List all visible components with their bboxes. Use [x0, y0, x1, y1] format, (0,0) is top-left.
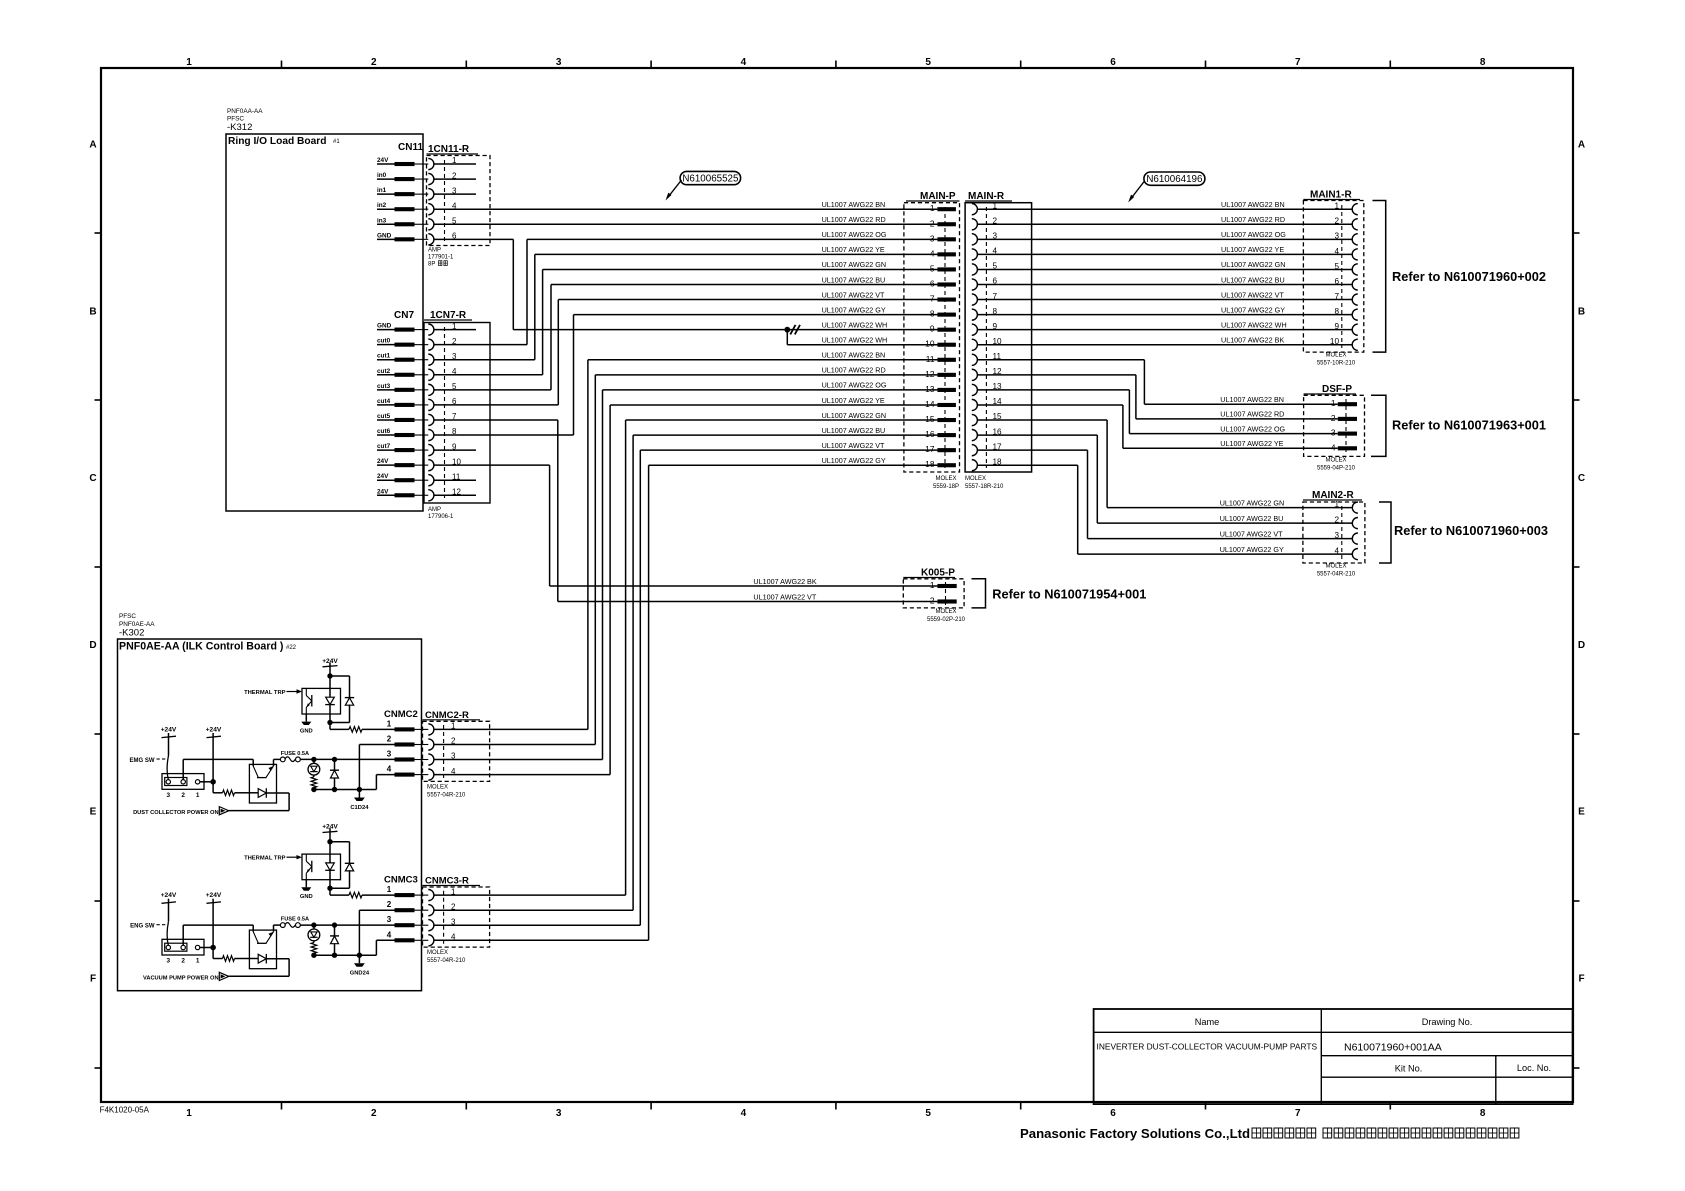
wire CN7 pin3 to MAIN-P pin4	[434, 359, 535, 361]
svg-text:7: 7	[1295, 1108, 1301, 1119]
svg-text:UL1007 AWG22 BN: UL1007 AWG22 BN	[822, 351, 886, 360]
svg-text:8: 8	[1334, 307, 1339, 316]
svg-text:UL1007 AWG22 VT: UL1007 AWG22 VT	[753, 592, 816, 601]
3-pin terminal block	[162, 774, 204, 790]
ground GND	[305, 880, 307, 888]
svg-text:UL1007 AWG22 BU: UL1007 AWG22 BU	[822, 275, 886, 284]
wire MAIN-R pin9 to MAIN1-R pin9	[977, 329, 1352, 331]
wire MAIN-R pin7 to MAIN1-R pin7	[977, 299, 1352, 301]
svg-text:Kit No.: Kit No.	[1395, 1064, 1423, 1074]
svg-text:24V: 24V	[377, 488, 389, 495]
svg-text:UL1007 AWG22 VT: UL1007 AWG22 VT	[822, 441, 885, 450]
diode in opto and output loop	[258, 789, 266, 798]
svg-text:PFSC: PFSC	[119, 613, 136, 620]
svg-text:UL1007 AWG22 BK: UL1007 AWG22 BK	[1221, 336, 1284, 345]
svg-text:MOLEX: MOLEX	[1325, 353, 1346, 359]
svg-text:3: 3	[451, 752, 456, 761]
svg-text:1: 1	[930, 580, 935, 590]
wire MAIN-P pin16 to CNMC3-R pin2	[633, 434, 937, 436]
svg-text:5559-04P-210: 5559-04P-210	[1317, 466, 1356, 472]
wire MAIN-R pin14 to DSF-P pin4	[977, 404, 1123, 406]
bracket K005-P	[972, 579, 986, 608]
svg-text:UL1007 AWG22 GY: UL1007 AWG22 GY	[822, 305, 886, 314]
bracket MAIN2-R	[1379, 502, 1391, 563]
svg-text:UL1007 AWG22 VT: UL1007 AWG22 VT	[1220, 529, 1283, 538]
svg-text:1: 1	[1334, 202, 1339, 211]
node bottom	[327, 886, 332, 891]
svg-text:DUST COLLECTOR POWER ON: DUST COLLECTOR POWER ON	[133, 810, 219, 816]
wire CN11 pin6 GND down to WH node	[434, 238, 513, 240]
opto-coupler thermal trip	[302, 688, 341, 714]
svg-text:PNF0AE-AA (ILK Control Board ): PNF0AE-AA (ILK Control Board )	[119, 641, 283, 653]
svg-text:GND: GND	[377, 323, 392, 330]
svg-text:GND: GND	[300, 894, 313, 900]
wire CN7 pin6 to MAIN-P pin7	[434, 404, 558, 406]
svg-text:4: 4	[451, 933, 456, 942]
svg-text:UL1007 AWG22 RD: UL1007 AWG22 RD	[822, 366, 886, 375]
svg-text:cut2: cut2	[377, 368, 391, 375]
svg-text:UL1007 AWG22 RD: UL1007 AWG22 RD	[822, 215, 886, 224]
svg-text:6: 6	[1110, 57, 1116, 68]
svg-text:UL1007 AWG22 RD: UL1007 AWG22 RD	[1220, 410, 1284, 419]
wire pin2 to opto collector	[182, 925, 184, 945]
svg-text:3: 3	[167, 792, 171, 799]
svg-text:UL1007 AWG22 BN: UL1007 AWG22 BN	[1221, 200, 1285, 209]
svg-text:F4K1020-05A: F4K1020-05A	[100, 1106, 150, 1115]
svg-text:UL1007 AWG22 YE: UL1007 AWG22 YE	[822, 245, 885, 254]
svg-text:10: 10	[925, 339, 935, 349]
resistor to opto	[212, 948, 214, 959]
wire CN11 pin5 to MAIN-P pin2	[434, 223, 938, 225]
svg-text:B: B	[89, 306, 96, 317]
svg-text:GND24: GND24	[350, 971, 370, 977]
wire MAIN-R pin2 to MAIN1-R pin2	[977, 223, 1352, 225]
node bottom	[327, 720, 332, 725]
svg-text:11: 11	[926, 354, 935, 364]
wire MAIN-P pin12 to CNMC2-R pin2	[595, 374, 937, 376]
svg-text:in3: in3	[377, 217, 387, 224]
svg-text:8P: 8P	[428, 262, 435, 268]
svg-text:C: C	[1578, 473, 1585, 484]
svg-text:9: 9	[930, 324, 935, 334]
svg-text:2: 2	[1331, 413, 1336, 423]
svg-text:A: A	[89, 140, 96, 151]
svg-text:MAIN2-R: MAIN2-R	[1312, 490, 1354, 501]
svg-text:8: 8	[930, 309, 935, 319]
svg-text:5557-04R-210: 5557-04R-210	[427, 793, 466, 799]
svg-text:D: D	[1578, 640, 1585, 651]
svg-text:1: 1	[196, 958, 200, 965]
svg-text:7: 7	[1334, 292, 1339, 301]
svg-text:cut6: cut6	[377, 428, 391, 435]
svg-text:Ring I/O Load Board: Ring I/O Load Board	[228, 136, 326, 147]
svg-text:12: 12	[925, 369, 935, 379]
svg-text:EMG SW: EMG SW	[130, 758, 155, 764]
svg-text:UL1007 AWG22 GY: UL1007 AWG22 GY	[1220, 545, 1284, 554]
svg-text:1: 1	[387, 719, 392, 728]
svg-text:MAIN-P: MAIN-P	[920, 191, 956, 202]
svg-text:177906-1: 177906-1	[428, 514, 454, 520]
svg-text:#1: #1	[333, 139, 340, 145]
svg-text:3: 3	[387, 915, 392, 924]
svg-text:N610064196: N610064196	[1146, 174, 1203, 185]
bottom rail to pin4	[314, 789, 377, 791]
svg-text:5559-18P: 5559-18P	[933, 484, 959, 490]
svg-text:UL1007 AWG22 WH: UL1007 AWG22 WH	[1221, 320, 1287, 329]
fuse 0.5A	[274, 924, 281, 926]
svg-text:UL1007 AWG22 OG: UL1007 AWG22 OG	[1221, 230, 1286, 239]
wire MAIN-P pin13 to CNMC2-R pin3	[603, 389, 938, 391]
svg-text:Loc. No.: Loc. No.	[1517, 1063, 1551, 1073]
svg-text:2: 2	[371, 57, 377, 68]
svg-text:CN7: CN7	[394, 310, 414, 321]
svg-text:2: 2	[371, 1108, 377, 1119]
wire CN7 pin10 to K005-P pin1	[434, 464, 550, 466]
svg-text:D: D	[89, 640, 96, 651]
svg-text:UL1007 AWG22 OG: UL1007 AWG22 OG	[1220, 424, 1285, 433]
svg-text:cut3: cut3	[377, 383, 391, 390]
svg-text:CNMC3: CNMC3	[384, 875, 418, 886]
svg-text:2: 2	[387, 900, 392, 909]
svg-text:N610065525: N610065525	[682, 174, 739, 185]
resistor to pin1	[329, 888, 331, 895]
svg-text:7: 7	[1295, 57, 1301, 68]
svg-text:Drawing No.: Drawing No.	[1422, 1017, 1473, 1027]
svg-text:+24V: +24V	[161, 892, 177, 899]
svg-text:1: 1	[186, 1108, 192, 1119]
svg-text:1: 1	[186, 57, 192, 68]
wire MAIN-R pin13 to DSF-P pin3	[977, 389, 1129, 391]
svg-text:6: 6	[1334, 277, 1339, 286]
svg-text:E: E	[1578, 807, 1585, 818]
svg-text:5557-18R-210: 5557-18R-210	[965, 484, 1004, 490]
svg-text:FUSE 0.5A: FUSE 0.5A	[281, 751, 309, 757]
svg-text:4: 4	[930, 248, 935, 258]
wire CN11 pin4 to MAIN-P pin1	[434, 208, 938, 210]
svg-text:Refer to N610071954+001: Refer to N610071954+001	[992, 587, 1146, 602]
wire MAIN-P pin11 to CNMC2-R pin1	[588, 359, 938, 361]
svg-text:2: 2	[1334, 217, 1339, 226]
wire jumper to MAIN-P pin10	[786, 330, 788, 345]
svg-text:+24V: +24V	[161, 727, 177, 734]
svg-text:10: 10	[1330, 337, 1340, 346]
svg-text:UL1007 AWG22 BU: UL1007 AWG22 BU	[1220, 514, 1284, 523]
svg-text:1: 1	[930, 203, 935, 213]
svg-text:1CN11-R: 1CN11-R	[428, 144, 470, 155]
buffer triangle VACUUM PUMP POWER ON	[219, 972, 229, 980]
svg-text:3: 3	[167, 958, 171, 965]
svg-text:MOLEX: MOLEX	[1325, 458, 1346, 464]
svg-text:FUSE 0.5A: FUSE 0.5A	[281, 917, 309, 923]
wire MAIN-R pin5 to MAIN1-R pin5	[977, 268, 1352, 270]
svg-text:2: 2	[451, 902, 456, 911]
svg-text:2: 2	[451, 737, 456, 746]
svg-text:MAIN-R: MAIN-R	[968, 191, 1005, 202]
wire MAIN-R pin1 to MAIN1-R pin1	[977, 208, 1352, 210]
wire CN7 pin7 to K005-P pin2	[434, 419, 558, 421]
resistor below LED	[313, 941, 315, 943]
stamp N610065525	[680, 171, 741, 184]
wire MAIN-R pin12 to DSF-P pin2	[977, 374, 1136, 376]
wire MAIN-R pin4 to MAIN1-R pin4	[977, 253, 1352, 255]
svg-text:16: 16	[925, 429, 935, 439]
svg-text:5559-02P-210: 5559-02P-210	[927, 617, 966, 623]
LED indicator	[313, 759, 315, 763]
wire fuse to pin3	[300, 758, 395, 760]
svg-text:UL1007 AWG22 VT: UL1007 AWG22 VT	[1221, 290, 1284, 299]
resistor to opto	[212, 782, 214, 793]
svg-text:UL1007 AWG22 VT: UL1007 AWG22 VT	[822, 290, 885, 299]
wire MAIN-R pin18 to MAIN2-R pin4	[977, 464, 1077, 466]
svg-text:UL1007 AWG22 RD: UL1007 AWG22 RD	[1221, 215, 1285, 224]
3-pin terminal block	[162, 939, 204, 955]
svg-text:cut5: cut5	[377, 413, 391, 420]
svg-text:-K312: -K312	[227, 122, 252, 133]
svg-text:UL1007 AWG22 BN: UL1007 AWG22 BN	[822, 200, 886, 209]
svg-text:MOLEX: MOLEX	[935, 609, 956, 615]
svg-text:C: C	[89, 473, 96, 484]
fuse 0.5A	[274, 758, 281, 760]
svg-text:24V: 24V	[377, 458, 389, 465]
svg-text:THERMAL TRP: THERMAL TRP	[244, 856, 286, 862]
break mark //	[790, 325, 795, 335]
svg-text:GND: GND	[300, 729, 313, 735]
wire CN7 pin2 to MAIN-P pin3	[434, 344, 527, 346]
svg-text:N610071960+001AA: N610071960+001AA	[1344, 1042, 1442, 1054]
svg-text:Name: Name	[1195, 1017, 1220, 1027]
svg-text:MOLEX: MOLEX	[427, 785, 448, 791]
svg-text:MOLEX: MOLEX	[965, 476, 986, 482]
diode (zener) branch	[334, 759, 336, 770]
svg-text:177901-1: 177901-1	[428, 255, 454, 261]
svg-text:UL1007 AWG22 OG: UL1007 AWG22 OG	[822, 230, 887, 239]
svg-text:4: 4	[387, 765, 392, 774]
svg-text:5557-10R-210: 5557-10R-210	[1317, 361, 1356, 367]
svg-text:+24V: +24V	[206, 727, 222, 734]
svg-text:UL1007 AWG22 GY: UL1007 AWG22 GY	[1221, 305, 1285, 314]
svg-text:+24V: +24V	[206, 892, 222, 899]
node at pin1	[200, 781, 213, 783]
resistor below LED	[313, 775, 315, 777]
border frame	[101, 68, 1573, 1102]
svg-text:VACUUM PUMP POWER ON: VACUUM PUMP POWER ON	[143, 976, 219, 982]
wire MAIN-R pin10 to MAIN1-R pin10	[977, 344, 1352, 346]
svg-text:in2: in2	[377, 202, 387, 209]
svg-text:UL1007 AWG22 YE: UL1007 AWG22 YE	[1221, 245, 1284, 254]
svg-text:3: 3	[1334, 232, 1339, 241]
svg-text:1: 1	[451, 887, 456, 896]
svg-text:4: 4	[741, 57, 747, 68]
svg-text:ENG SW: ENG SW	[130, 924, 155, 930]
svg-text:4: 4	[1334, 547, 1339, 556]
svg-text:1: 1	[387, 885, 392, 894]
svg-text:3: 3	[387, 750, 392, 759]
ground C1D24	[358, 790, 360, 798]
svg-text:24V: 24V	[377, 473, 389, 480]
svg-text:1: 1	[196, 792, 200, 799]
svg-text:7: 7	[930, 294, 935, 304]
svg-text:2: 2	[930, 596, 935, 606]
wire MAIN-R pin6 to MAIN1-R pin6	[977, 284, 1352, 286]
LED indicator	[313, 925, 315, 929]
diode in opto and output loop	[258, 954, 266, 963]
wire CN7 pin8 to MAIN-P pin8	[434, 434, 574, 436]
svg-text:CNMC2: CNMC2	[384, 709, 418, 720]
node at pin1	[200, 947, 213, 949]
svg-text:UL1007 AWG22 BN: UL1007 AWG22 BN	[1220, 395, 1284, 404]
svg-text:3: 3	[930, 233, 935, 243]
svg-text:GND: GND	[377, 232, 392, 239]
svg-text:in0: in0	[377, 172, 387, 179]
wire MAIN-R pin3 to MAIN1-R pin3	[977, 238, 1352, 240]
svg-text:MOLEX: MOLEX	[1325, 564, 1346, 570]
svg-text:cut1: cut1	[377, 353, 391, 360]
svg-text:3: 3	[1334, 531, 1339, 540]
bracket DSF-P	[1371, 395, 1386, 456]
resistor to pin1	[329, 723, 331, 730]
svg-text:PNF0AA-AA: PNF0AA-AA	[227, 108, 263, 115]
svg-text:Refer to N610071963+001: Refer to N610071963+001	[1392, 418, 1546, 433]
svg-text:cut0: cut0	[377, 338, 391, 345]
svg-text:A: A	[1578, 140, 1585, 151]
diode (zener) branch	[334, 925, 336, 936]
svg-text:24V: 24V	[377, 157, 389, 164]
svg-text:-K302: -K302	[119, 628, 144, 639]
opto-coupler	[249, 764, 276, 803]
wire MAIN-R pin16 to MAIN2-R pin2	[977, 434, 1097, 436]
svg-text:UL1007 AWG22 YE: UL1007 AWG22 YE	[1220, 439, 1283, 448]
svg-text:MOLEX: MOLEX	[935, 476, 956, 482]
svg-text:5: 5	[1334, 262, 1339, 271]
diode (zener) right branch	[345, 862, 354, 864]
bottom rail to pin4	[314, 954, 377, 956]
svg-text:K005-P: K005-P	[921, 568, 955, 579]
svg-text:3: 3	[1331, 428, 1336, 438]
svg-text:UL1007 AWG22 BK: UL1007 AWG22 BK	[753, 577, 816, 586]
svg-text:2: 2	[930, 218, 935, 228]
Ring I/O Load Board PNF0AA-AA -K312	[226, 134, 423, 511]
svg-text:1CN7-R: 1CN7-R	[430, 310, 467, 321]
svg-text:B: B	[1578, 306, 1585, 317]
wire MAIN-P pin15 to CNMC3-R pin1	[626, 419, 938, 421]
wire MAIN-R pin15 to MAIN2-R pin1	[977, 419, 1107, 421]
svg-text:5: 5	[930, 263, 935, 273]
svg-text:cut4: cut4	[377, 398, 391, 405]
svg-text:THERMAL TRP: THERMAL TRP	[244, 690, 286, 696]
svg-text:UL1007 AWG22 GN: UL1007 AWG22 GN	[822, 411, 886, 420]
svg-text:1: 1	[1331, 398, 1336, 408]
svg-text:UL1007 AWG22 YE: UL1007 AWG22 YE	[822, 396, 885, 405]
svg-text:AMP: AMP	[428, 507, 441, 513]
svg-text:F: F	[1578, 974, 1584, 985]
svg-text:UL1007 AWG22 BU: UL1007 AWG22 BU	[822, 426, 886, 435]
wire MAIN-P pin17 to CNMC3-R pin3	[640, 449, 937, 451]
svg-text:3: 3	[556, 57, 562, 68]
svg-text:DSF-P: DSF-P	[1322, 384, 1352, 395]
svg-text:UL1007 AWG22 GN: UL1007 AWG22 GN	[822, 260, 886, 269]
ground GND	[305, 714, 307, 722]
svg-text:UL1007 AWG22 GY: UL1007 AWG22 GY	[822, 456, 886, 465]
diode (zener) right branch	[345, 697, 354, 699]
svg-text:MOLEX: MOLEX	[427, 950, 448, 956]
svg-text:UL1007 AWG22 WH: UL1007 AWG22 WH	[822, 320, 888, 329]
wire fuse to pin3	[300, 924, 395, 926]
svg-text:3: 3	[556, 1108, 562, 1119]
ILK Control Board PNF0AE-AA -K302	[118, 639, 422, 991]
svg-text:5: 5	[925, 57, 931, 68]
svg-text:Refer to N610071960+003: Refer to N610071960+003	[1394, 523, 1548, 538]
svg-text:UL1007 AWG22 BU: UL1007 AWG22 BU	[1221, 275, 1285, 284]
svg-text:4: 4	[451, 767, 456, 776]
svg-text:17: 17	[925, 444, 935, 454]
svg-text:5557-04R-210: 5557-04R-210	[1317, 572, 1356, 578]
node WH jumper dot	[784, 327, 790, 333]
svg-text:2: 2	[181, 792, 185, 799]
svg-text:4: 4	[1334, 247, 1339, 256]
svg-text:4: 4	[387, 930, 392, 939]
ground GND24	[358, 955, 360, 963]
svg-text:in1: in1	[377, 187, 387, 194]
node	[327, 673, 332, 678]
svg-text:8: 8	[1480, 1108, 1486, 1119]
svg-text:#22: #22	[286, 645, 297, 651]
svg-text:INEVERTER DUST-COLLECTOR VACUU: INEVERTER DUST-COLLECTOR VACUUM-PUMP PAR…	[1097, 1042, 1318, 1052]
svg-text:2: 2	[181, 958, 185, 965]
wire MAIN-R pin11 to DSF-P pin1	[977, 359, 1144, 361]
wire pin2 to opto collector	[182, 759, 184, 779]
wire CN7 pin5 to MAIN-P pin6	[434, 389, 551, 391]
svg-text:Refer to N610071960+002: Refer to N610071960+002	[1392, 269, 1546, 284]
stamp N610064196	[1144, 172, 1205, 185]
svg-text:UL1007 AWG22 OG: UL1007 AWG22 OG	[822, 381, 887, 390]
svg-text:3: 3	[451, 917, 456, 926]
wire MAIN-P pin14 to CNMC2-R pin4	[610, 404, 937, 406]
wire pin2 down	[359, 909, 394, 911]
svg-text:MAIN1-R: MAIN1-R	[1310, 190, 1352, 201]
opto-coupler	[249, 930, 276, 969]
svg-text:4: 4	[741, 1108, 747, 1119]
svg-text:4: 4	[1331, 442, 1336, 452]
svg-text:13: 13	[925, 384, 935, 394]
svg-text:5557-04R-210: 5557-04R-210	[427, 958, 466, 964]
wire MAIN-R pin8 to MAIN1-R pin8	[977, 314, 1352, 316]
node	[327, 839, 332, 844]
svg-text:6: 6	[930, 279, 935, 289]
wire MAIN-P pin18 to CNMC3-R pin4	[649, 464, 938, 466]
svg-text:1: 1	[451, 722, 456, 731]
svg-text:UL1007 AWG22 WH: UL1007 AWG22 WH	[822, 336, 888, 345]
svg-text:6: 6	[1110, 1108, 1116, 1119]
svg-text:9: 9	[1334, 322, 1339, 331]
svg-text:AMP: AMP	[428, 248, 441, 254]
svg-text:UL1007 AWG22 GN: UL1007 AWG22 GN	[1220, 498, 1284, 507]
svg-text:18: 18	[925, 459, 935, 469]
svg-text:UL1007 AWG22 GN: UL1007 AWG22 GN	[1221, 260, 1285, 269]
wire MAIN-R pin17 to MAIN2-R pin3	[977, 449, 1087, 451]
wire CN7 pin4 to MAIN-P pin5	[434, 374, 543, 376]
svg-text:CN11: CN11	[398, 142, 423, 153]
svg-text:C1D24: C1D24	[350, 805, 369, 811]
svg-text:8: 8	[1480, 57, 1486, 68]
svg-text:2: 2	[1334, 516, 1339, 525]
svg-text:14: 14	[925, 399, 935, 409]
svg-text:F: F	[90, 974, 96, 985]
opto-coupler thermal trip	[302, 854, 341, 880]
svg-text:5: 5	[925, 1108, 931, 1119]
svg-text:E: E	[90, 807, 97, 818]
bracket MAIN1-R	[1373, 201, 1386, 353]
title block	[1094, 1009, 1573, 1104]
